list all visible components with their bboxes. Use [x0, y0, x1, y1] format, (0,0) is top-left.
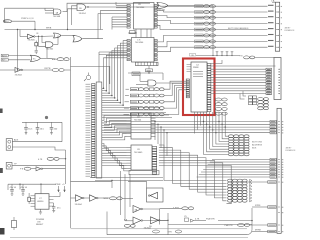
or-gate U3A — [54, 33, 62, 38]
sheet bottom border — [10, 237, 248, 239]
U10 upper left stubs — [187, 64, 192, 66]
wire links between U5 U6 — [135, 29, 137, 38]
wire — [148, 66, 150, 69]
wire — [86, 6, 158, 8]
node ovals — [182, 207, 188, 210]
wire — [90, 177, 163, 179]
wire rows to CN3 bottom — [252, 206, 268, 208]
section border vertical lower — [70, 180, 72, 228]
wire — [211, 60, 222, 64]
wire — [61, 140, 63, 142]
svg-text:TP: TP — [14, 164, 17, 166]
svg-text:16.5: 16.5 — [28, 129, 33, 131]
latch U8 74LS244 body — [131, 113, 151, 139]
inverter U2C small — [36, 167, 41, 171]
wire — [68, 9, 78, 30]
wire oval-rows-to-U10 — [164, 81, 186, 89]
wire — [39, 36, 46, 46]
wire — [8, 55, 30, 57]
wire — [61, 122, 63, 140]
J3 pin name texts — [86, 83, 91, 85]
node oval — [52, 69, 59, 72]
capacitor C16 — [52, 206, 55, 208]
wire L-bends — [240, 94, 245, 100]
battery box — [12, 221, 17, 228]
wire — [12, 165, 66, 167]
svg-text:EXPANSION: EXPANSION — [285, 29, 296, 32]
wire buttons data bus rows — [157, 5, 267, 8]
svg-text:74LS244: 74LS244 — [136, 7, 145, 9]
buffer U9 74LS645 body — [131, 145, 152, 170]
top or-gate U7 — [157, 3, 168, 9]
and-gate U1B 74LS14 — [77, 4, 86, 11]
connector J5 body — [6, 163, 12, 170]
label MA8 — [146, 69, 153, 72]
wire header-to-bus rows — [102, 87, 104, 89]
U6 bottom pin row — [136, 62, 159, 65]
wire fan to address bus — [204, 112, 229, 154]
wire — [168, 224, 252, 226]
wire — [17, 30, 19, 70]
svg-text:74LS04: 74LS04 — [134, 119, 142, 121]
svg-text:MTR8: MTR8 — [255, 230, 262, 232]
inverter U12A — [76, 195, 83, 202]
inverter U2A 74LS05 — [28, 34, 34, 39]
svg-text:P1A STR: P1A STR — [206, 218, 215, 221]
wire — [199, 220, 206, 222]
wire staircase U9-to-keypad — [159, 145, 227, 181]
wire — [35, 35, 53, 38]
and-gate U1C 74LS02 — [46, 42, 54, 48]
wire — [160, 207, 182, 209]
inverter U12B — [90, 195, 97, 202]
scan mark left 3 — [0, 228, 5, 235]
connector CN3 body — [277, 108, 281, 233]
inverter U13A — [133, 206, 141, 213]
or-gate U3B — [73, 36, 82, 43]
node oval — [153, 230, 160, 233]
connector CN1 body — [275, 2, 279, 51]
wire — [98, 197, 109, 199]
svg-text:P8/88: P8/88 — [193, 67, 199, 69]
wire staircase header-to-U8 — [102, 116, 127, 121]
svg-text:47u 16: 47u 16 — [21, 187, 28, 189]
wire — [64, 69, 71, 71]
svg-text:100: 100 — [54, 129, 58, 131]
svg-text:74LS244: 74LS244 — [135, 42, 144, 44]
U8 pin stubs — [127, 115, 132, 117]
inverter U14A — [150, 192, 158, 199]
inverter U13B — [133, 217, 141, 224]
U10 left pin boxes — [186, 79, 189, 81]
svg-text:47u: 47u — [57, 208, 61, 210]
wire — [143, 208, 160, 210]
buffer IC U5 74LS244 body — [134, 3, 155, 30]
wire — [41, 57, 47, 59]
CN2 pin ticks — [278, 68, 280, 70]
power arrow 2 — [64, 186, 66, 192]
svg-text:A 8: A 8 — [124, 219, 128, 222]
node oval — [109, 197, 116, 200]
node oval rows left of U10 — [130, 88, 138, 91]
and-gate U1A 74LS08 — [54, 9, 62, 15]
svg-text:PWR: PWR — [56, 184, 61, 186]
highlight red box — [183, 59, 215, 116]
svg-text:C5: C5 — [184, 216, 188, 218]
small box below U9 — [129, 171, 159, 175]
svg-text:EXPANSION: EXPANSION — [286, 149, 297, 152]
wire — [71, 197, 76, 199]
wire — [0, 69, 15, 71]
wire pull-up rail — [196, 55, 240, 57]
svg-text:C7: C7 — [39, 198, 43, 200]
wire — [252, 231, 268, 233]
U6 right pin boxes — [154, 40, 157, 42]
capacitor C10 — [35, 50, 38, 52]
node ovals BUTTONS ADDRESS BUS — [229, 135, 234, 138]
stray dot — [45, 116, 48, 119]
svg-text:74LS645: 74LS645 — [134, 152, 143, 154]
svg-text:P 8: P 8 — [20, 169, 24, 171]
svg-text:1A: 1A — [56, 11, 59, 14]
svg-text:74LS14: 74LS14 — [79, 13, 87, 15]
svg-text:3C: 3C — [33, 58, 36, 60]
svg-text:RESET: RESET — [36, 224, 44, 226]
inverter U2B — [15, 68, 21, 73]
wire — [12, 20, 35, 22]
svg-text:74LS05: 74LS05 — [28, 40, 36, 42]
node oval — [47, 157, 54, 160]
wire — [47, 57, 57, 60]
wire verticals center — [120, 171, 122, 215]
node ovals cluster A — [215, 98, 221, 101]
CN3 pin ticks — [278, 121, 280, 123]
svg-text:STR8: STR8 — [255, 205, 261, 207]
svg-text:3A: 3A — [135, 209, 138, 212]
U5 left pin boxes — [127, 5, 130, 7]
connector J4 body — [6, 139, 12, 151]
node ovals cluster B — [258, 98, 264, 101]
feedback box U14 — [147, 188, 164, 202]
node oval — [238, 224, 245, 227]
connector J3 body — [96, 82, 102, 178]
wire stubs below address rows — [154, 122, 156, 141]
wire — [140, 80, 148, 82]
svg-text:7 8: 7 8 — [240, 55, 244, 57]
svg-text:74LS04: 74LS04 — [75, 204, 83, 206]
U6 left pin boxes — [127, 40, 130, 42]
wire — [62, 35, 76, 37]
resistor network RN1 — [216, 52, 218, 56]
wire — [31, 168, 36, 170]
resistor R2 — [28, 197, 31, 201]
power arrow +5V — [58, 186, 60, 192]
wire power rail — [8, 183, 56, 185]
inverter U15 — [151, 217, 159, 224]
svg-text:LM556: LM556 — [37, 201, 44, 203]
U10 right pin boxes — [207, 64, 211, 66]
wire RST to bus — [71, 66, 110, 84]
rom U10 body — [191, 62, 207, 112]
U9 right pin boxes — [152, 147, 157, 149]
connector CN2 body — [274, 58, 281, 100]
wire — [22, 69, 52, 71]
svg-text:WR'B: WR'B — [46, 28, 52, 30]
svg-text:I 8: I 8 — [36, 33, 39, 35]
wire header rows lower — [102, 107, 160, 109]
scan mark left 1 — [0, 109, 3, 114]
svg-text:BUS: BUS — [252, 148, 257, 150]
label box below U6 — [132, 72, 140, 76]
U9 left pin stubs — [127, 147, 132, 149]
wire long bottom — [71, 228, 248, 230]
connector CN1 pin labels — [268, 4, 274, 6]
wire — [125, 220, 133, 222]
wire — [59, 158, 65, 160]
sheet border top-left — [5, 7, 54, 9]
svg-text:AUX: AUX — [14, 139, 19, 142]
wire — [71, 180, 113, 182]
wire WR'B rail — [5, 29, 104, 31]
J3 pin boxes — [92, 84, 95, 86]
U10 text rows — [193, 71, 203, 73]
buffer IC U6 74LS244 body — [132, 38, 155, 63]
svg-text:47u 16: 47u 16 — [10, 187, 17, 189]
wire — [122, 197, 133, 199]
svg-text:1B: 1B — [149, 226, 152, 228]
wire — [42, 36, 46, 42]
wire U10-to-CN2 rows — [211, 68, 266, 70]
svg-text:PWR'S 0,2,8: PWR'S 0,2,8 — [21, 18, 34, 20]
wire fan U6-to-bus — [123, 41, 127, 105]
wire — [63, 11, 68, 13]
node oval under U13B — [124, 224, 130, 227]
ground U11 — [40, 209, 42, 212]
svg-text:74LS04: 74LS04 — [15, 74, 23, 76]
U5 right pin boxes — [154, 5, 157, 7]
svg-text:BUTTONS: BUTTONS — [252, 142, 263, 144]
scan mark left 2 — [0, 168, 3, 173]
wire — [20, 36, 28, 38]
wire — [98, 13, 127, 15]
wire — [161, 219, 169, 221]
wire — [146, 181, 148, 188]
wire — [40, 184, 42, 194]
nor-gate U3C 74LS02 — [31, 55, 41, 61]
svg-text:+5: +5 — [62, 184, 65, 186]
wire stubs below U10 — [194, 112, 196, 134]
resistor R1 — [35, 43, 38, 46]
svg-text:ADDRESS: ADDRESS — [252, 144, 263, 147]
wire data rows to CN3 lower — [212, 159, 270, 161]
wire — [83, 38, 104, 40]
svg-text:MR8: MR8 — [104, 198, 109, 200]
capacitors C11-C13 — [25, 122, 27, 127]
svg-text:74LS32: 74LS32 — [158, 10, 166, 12]
timer U11 LM556 body — [35, 194, 49, 210]
section border vertical — [70, 57, 72, 120]
svg-text:I B: I B — [191, 55, 194, 57]
node AB1 label — [1, 59, 8, 62]
node labels data bus — [195, 5, 204, 8]
node ovals keypad matrix — [228, 179, 233, 182]
svg-text:C8: C8 — [137, 149, 141, 151]
transistor Q1 — [86, 75, 90, 79]
ground — [52, 210, 55, 212]
svg-text:1B: 1B — [79, 8, 82, 10]
wire — [54, 44, 59, 46]
wire — [7, 184, 9, 190]
wire — [45, 10, 54, 12]
node AB8 label — [3, 20, 11, 23]
capacitors C14 C15 — [11, 184, 13, 189]
node oval — [24, 167, 31, 170]
svg-text:BUTTONS DATA BUS: BUTTONS DATA BUS — [228, 27, 249, 30]
pin label boxes cluster — [249, 96, 253, 99]
svg-text:PIA STR: PIA STR — [225, 224, 233, 227]
wire — [65, 169, 67, 184]
and-gate U16 — [148, 80, 156, 86]
svg-text:74LS08: 74LS08 — [53, 16, 61, 18]
wire — [99, 51, 127, 53]
wire — [272, 1, 275, 3]
wire address rows to CN3 — [104, 121, 270, 123]
node oval — [244, 56, 250, 59]
node AB11 label — [1, 54, 8, 57]
wire staircase header-to-U9 — [102, 144, 127, 148]
wire top rail caps — [22, 121, 62, 123]
wire — [101, 9, 128, 11]
wire — [84, 197, 90, 199]
keypad section box — [106, 212, 108, 235]
wire — [12, 141, 62, 143]
wire rows U5 upper pins — [112, 16, 127, 18]
wire — [72, 6, 78, 25]
wire — [255, 56, 275, 58]
wire — [169, 5, 214, 7]
CN2 pin label boxes — [266, 68, 272, 70]
svg-text:4.7K: 4.7K — [38, 159, 43, 161]
svg-text:4.7K: 4.7K — [195, 218, 200, 220]
small parts C5 — [185, 218, 189, 221]
svg-text:16.5: 16.5 — [40, 129, 45, 131]
svg-text:AB11: AB11 — [2, 55, 8, 58]
wire — [250, 224, 268, 226]
U11 pin stubs — [31, 195, 36, 197]
